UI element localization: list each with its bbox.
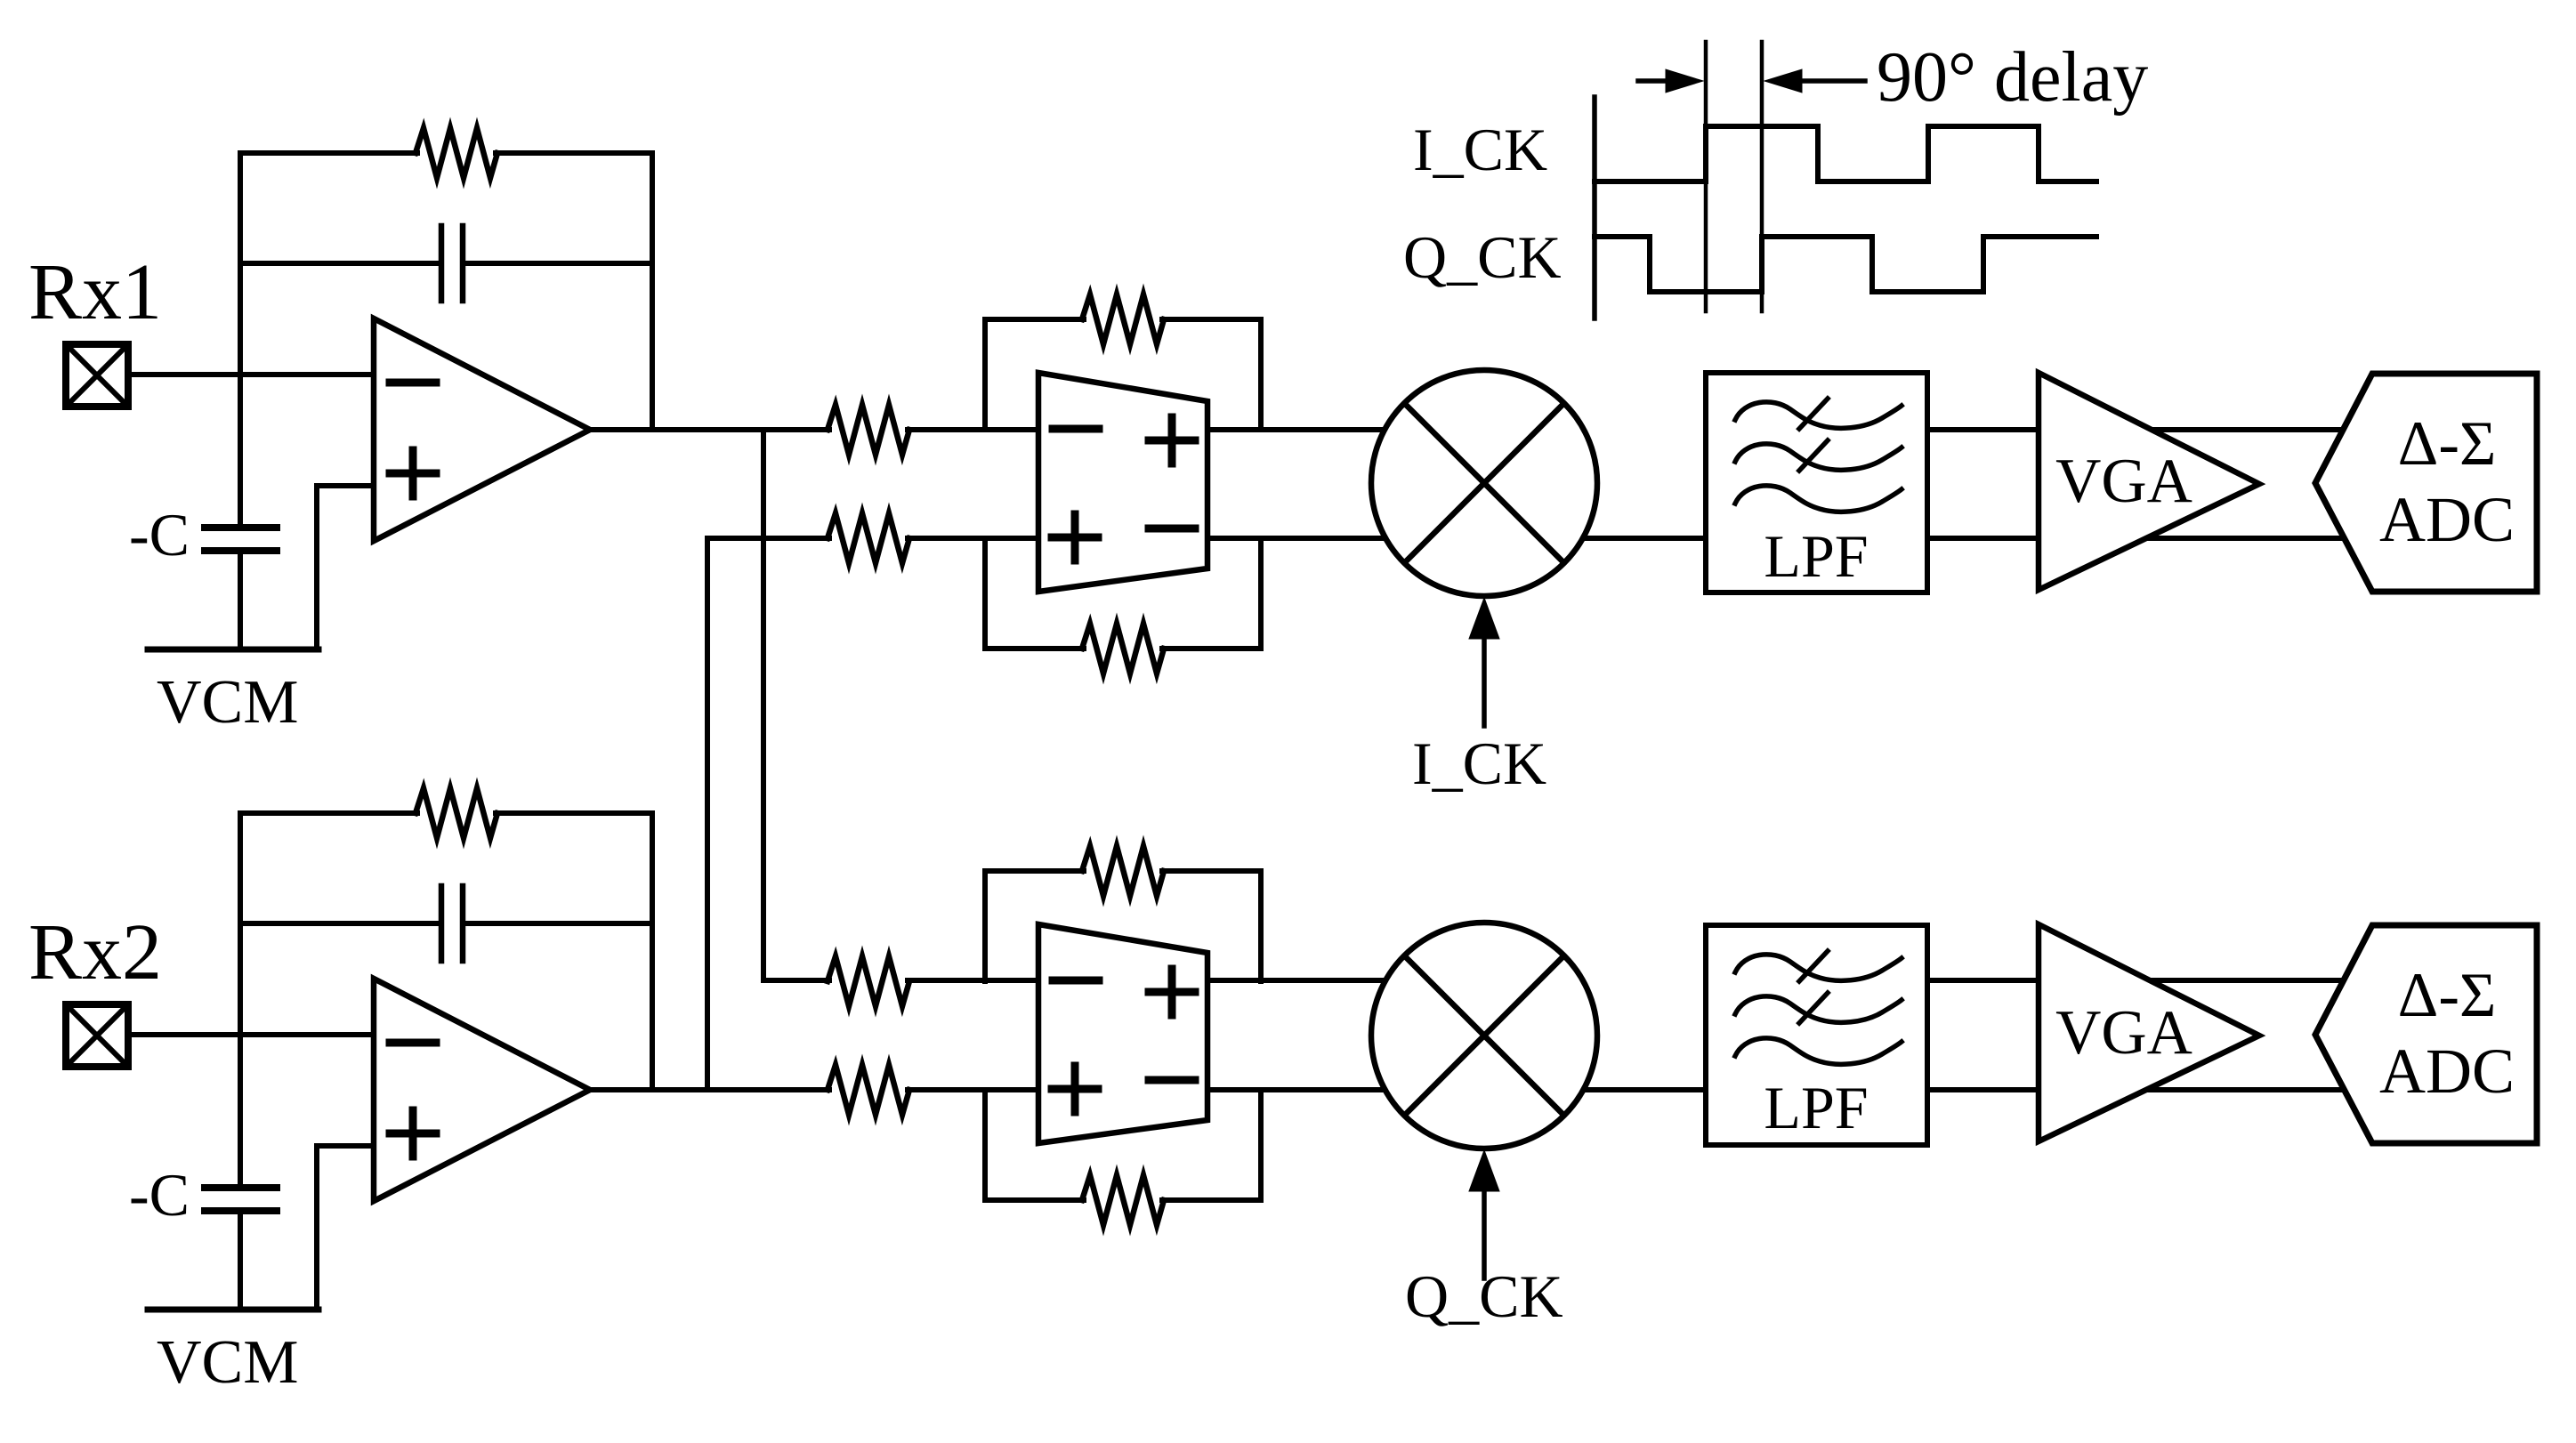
svg-text:Δ-Σ: Δ-Σ: [2398, 409, 2497, 479]
svg-text:VCM: VCM: [157, 1328, 298, 1397]
svg-text:-C: -C: [129, 1161, 190, 1229]
svg-text:VGA: VGA: [2055, 447, 2192, 516]
svg-text:VGA: VGA: [2055, 998, 2192, 1068]
svg-text:Q_CK: Q_CK: [1405, 1262, 1563, 1330]
svg-text:LPF: LPF: [1764, 1074, 1868, 1141]
svg-text:Rx2: Rx2: [28, 908, 162, 996]
svg-text:90° delay: 90° delay: [1877, 38, 2148, 117]
svg-text:-C: -C: [129, 501, 190, 568]
svg-text:I_CK: I_CK: [1413, 116, 1547, 183]
svg-text:VCM: VCM: [157, 668, 298, 737]
svg-text:ADC: ADC: [2379, 484, 2515, 555]
svg-text:I_CK: I_CK: [1412, 730, 1546, 797]
svg-text:Rx1: Rx1: [28, 248, 162, 336]
svg-text:ADC: ADC: [2379, 1036, 2515, 1107]
svg-text:Δ-Σ: Δ-Σ: [2398, 961, 2497, 1030]
svg-text:Q_CK: Q_CK: [1403, 223, 1562, 291]
svg-text:LPF: LPF: [1764, 522, 1868, 590]
